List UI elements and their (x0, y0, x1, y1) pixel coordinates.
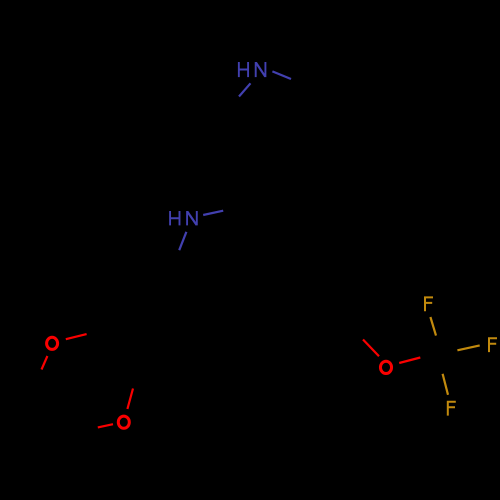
bond F2-C half (gold, left) (457, 345, 479, 350)
methoxy O1 label (left) (47, 337, 58, 349)
bond O3-CF3 half (red, right) (399, 358, 420, 364)
bond N1-C2 half (blue, to right) (272, 71, 291, 79)
bond N1-C5 half (blue, down-left) (239, 83, 251, 96)
bond O1-CH3 half (red, down-left) (42, 356, 48, 370)
bond F3-C half (gold, up) (443, 374, 448, 395)
methoxy O2 label (bottom) (118, 416, 129, 428)
bond N2-C(aryl) half (blue, down-left) (179, 232, 186, 250)
fluorine F2 label (right) (488, 337, 497, 352)
bond O2-CH3 half (red, left) (98, 424, 113, 427)
bond F1-C half (gold, down) (430, 317, 436, 336)
bond O1-C(aryl) half (red, up-right) (66, 334, 87, 339)
fluorine F1 label (top) (424, 296, 433, 311)
ether O3 label (right, OCF3) (380, 361, 391, 373)
amine N2 H-N label (middle) (170, 211, 197, 225)
bond N2-CH half (blue, up-right) (203, 211, 223, 215)
bond O2-C(aryl) half (red, up) (127, 389, 133, 410)
bond O3-C(aryl) half (red, up-left) (363, 340, 379, 357)
pyrrole N1 H-N label (top) (239, 62, 266, 77)
fluorine F3 label (bottom) (447, 401, 456, 416)
